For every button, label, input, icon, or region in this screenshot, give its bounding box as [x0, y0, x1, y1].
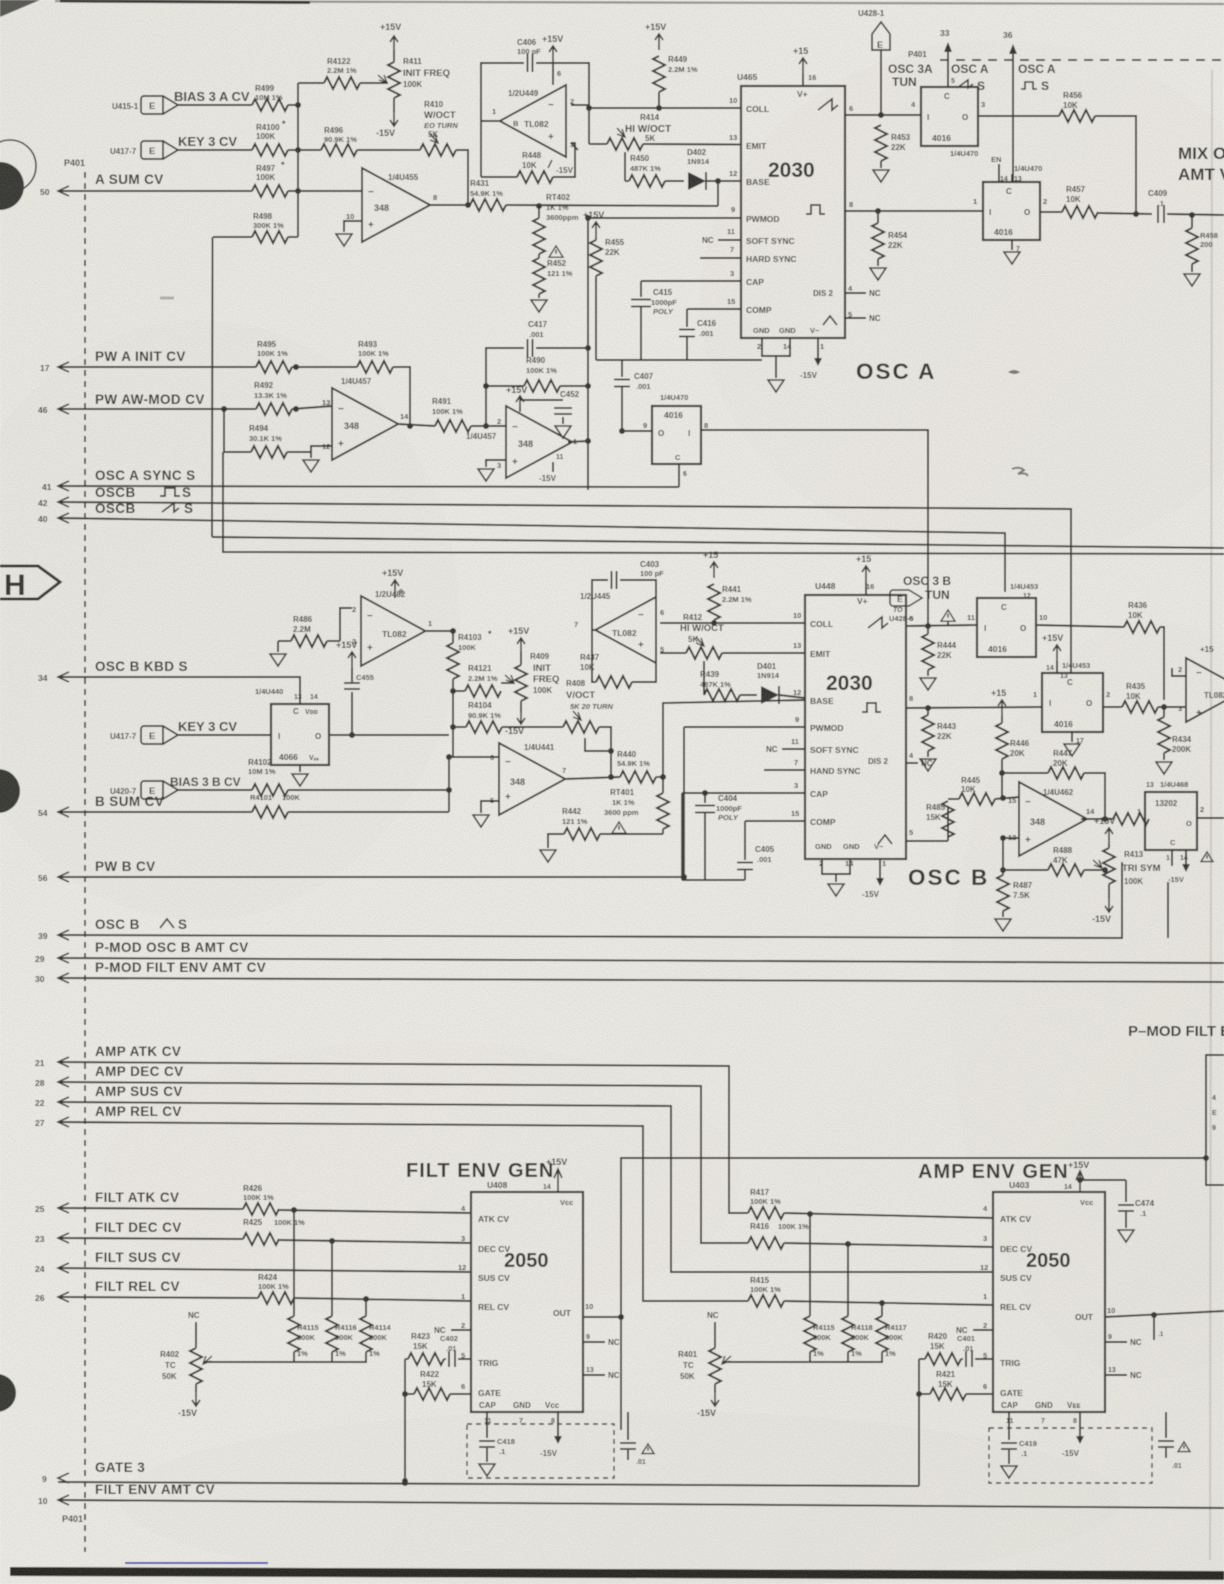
smudge mark c [160, 297, 174, 300]
pin 29 arrow [35, 953, 69, 964]
resistor R491 [432, 397, 471, 432]
pot R410 W/OCT [420, 100, 458, 156]
analog switch U440 4066 [255, 687, 329, 765]
resistor R452 [533, 254, 573, 294]
net AMP SUS CV [95, 1084, 183, 1099]
wire OSCB saw-S bus [58, 518, 1005, 592]
wire r4103 down [452, 679, 454, 757]
net PW A INIT CV [95, 349, 186, 364]
U462 output [1081, 816, 1113, 822]
U441 -input wire [449, 756, 499, 758]
U448 pin EMIT [793, 641, 831, 659]
net BIAS 3 A CV [174, 89, 250, 104]
power -15V r402 [178, 1390, 200, 1418]
net label MIX OSC AMT [1178, 144, 1224, 184]
C403 feedback frame [592, 580, 656, 630]
pot R413 TRI SYM [1093, 844, 1161, 898]
U403 OUT pin [1075, 1306, 1115, 1322]
U465 pin HARD SYNC [700, 245, 797, 264]
U465 pin CAP [730, 269, 764, 287]
wire r431 to node [506, 203, 718, 209]
op-amp U441 [490, 743, 566, 815]
U465 V+ pin [793, 46, 816, 99]
wire r445 to u462 [995, 795, 1019, 801]
net label AMP ENV GEN [918, 1161, 1069, 1183]
capacitor C415 [631, 281, 677, 360]
ground r454 [870, 259, 886, 280]
wire filt out [583, 1314, 624, 1320]
resistor R486 feedback [291, 608, 352, 647]
pin 56 arrow [38, 872, 69, 883]
wire pulse B out [906, 705, 1042, 711]
IC U465 2030 body [737, 72, 845, 338]
resistor R488 [1003, 846, 1084, 876]
resistor R415 [748, 1276, 784, 1307]
bottom black bar [10, 1567, 1224, 1580]
resistor R458 [1186, 215, 1218, 264]
net B SUM CV [95, 794, 164, 809]
wire filt-dec [58, 1238, 243, 1239]
pin 23 arrow [35, 1233, 69, 1244]
resistor R441 [708, 584, 752, 623]
resistor R435 [1103, 682, 1158, 713]
diode D402 [665, 148, 710, 190]
op-amp U457a [322, 377, 409, 460]
cap bottom bus [596, 359, 762, 361]
wire r495 node [292, 364, 357, 370]
wire filt-atk [58, 1208, 243, 1209]
capacitor C401 [957, 1334, 993, 1367]
wire r4104 to voct [502, 726, 563, 728]
U403 bottom labels [1001, 1401, 1080, 1425]
wire pw-b [58, 727, 687, 880]
pin 22 arrow [35, 1097, 69, 1108]
wire pw-aw [58, 408, 256, 410]
wire gate-3 [58, 1480, 919, 1486]
IC U468 13202 [1137, 780, 1204, 850]
pin 28 arrow [35, 1077, 69, 1088]
wire PWMOD B [684, 726, 805, 728]
resistor R439 [700, 670, 740, 701]
pin 21 arrow [35, 1057, 69, 1068]
U448 gnd pins wires [822, 859, 850, 882]
U448 V+ pin [856, 554, 874, 606]
P401 label bottom [62, 1514, 83, 1524]
wire filt-env-amt [58, 1500, 1224, 1508]
wire r455 stub [595, 278, 597, 360]
ground rt402 chain [531, 294, 547, 312]
net P-MOD FILT ENV AMT CV [95, 960, 266, 975]
scanner corner top-left [0, 0, 40, 17]
IC U408 2050 body [471, 1180, 583, 1412]
U455 +input ground [336, 212, 362, 246]
wire r446 node [999, 759, 1005, 798]
wire filt-rel [58, 1297, 258, 1298]
pin 46 arrow [38, 404, 69, 415]
net A SUM CV [95, 172, 164, 187]
resistor R496 [321, 126, 357, 156]
wire 300k bus amp [722, 1352, 882, 1362]
U453b gnd stub [1064, 732, 1084, 756]
trig gate column filt [402, 1359, 414, 1484]
resistor R499 [252, 84, 288, 111]
U448 DIS2 pin [868, 751, 933, 768]
U403 pin REL [983, 1292, 1031, 1312]
resistor R420 [925, 1332, 961, 1365]
U448 pin HAND SYNC [764, 758, 861, 776]
wire amp-rel [58, 1122, 748, 1301]
r486 ground [270, 641, 291, 666]
U465 pin BASE [729, 169, 770, 187]
U470b gnd stub [1004, 240, 1020, 264]
R414 wiper drop [624, 152, 626, 181]
resistor R4100 [252, 119, 288, 156]
wire b-sum [58, 811, 252, 813]
U403 cap dashed box [989, 1428, 1152, 1483]
wire r412 to emit [722, 652, 805, 654]
r442 ground [540, 834, 564, 862]
U468 out wire [1197, 817, 1224, 819]
resistor R421 [930, 1370, 993, 1400]
capacitor C404 [695, 793, 742, 880]
U462 +input wire [1000, 835, 1019, 873]
P401 dashed line top [908, 50, 1224, 60]
wire a-sum [58, 190, 252, 192]
power +15V r413 [1094, 816, 1115, 844]
wire r417 to chip [784, 1211, 993, 1218]
power -15V r409 [505, 708, 525, 736]
ground r487 [995, 911, 1011, 931]
resistor R443 [922, 708, 957, 751]
op-amp U482 [352, 590, 432, 666]
binder hole 2 [0, 769, 20, 813]
resistor R489 series [1113, 813, 1149, 825]
U470c in wire [619, 428, 652, 434]
U408 NC stubs [583, 1334, 620, 1380]
E flag OSC 3B TUN [889, 574, 951, 623]
U408 2050 label [504, 1250, 549, 1272]
U448 pin CAP [794, 781, 828, 799]
wire CAP B [682, 792, 805, 794]
wire key node [288, 147, 321, 153]
net KEY 3 CV b [178, 719, 237, 734]
U457b output wire [568, 438, 591, 444]
wire r457 to c409 [1098, 211, 1152, 217]
resistor R457 [1040, 185, 1098, 218]
pin 40 arrow [38, 513, 69, 524]
op-amp U445 [574, 592, 664, 663]
op-amp U457b [466, 406, 577, 478]
smudge mark a [1008, 370, 1020, 374]
wire amp-sus [58, 1102, 993, 1272]
U403 pin SUS [980, 1263, 1032, 1283]
U448 pin COLL [793, 611, 833, 629]
resistor R494 [224, 424, 287, 458]
wire r420 c401 [961, 1358, 963, 1360]
ground c418 [479, 1464, 495, 1476]
net PW B CV [95, 859, 156, 874]
p-mod box pins [1212, 1095, 1217, 1132]
diode D401 [740, 662, 780, 704]
U457b power -15V [539, 454, 564, 483]
pin 54 arrow [38, 807, 69, 818]
C417 feedback frame [486, 345, 591, 426]
resistor R4114 filt [360, 1299, 392, 1358]
resistor R4118 amp [842, 1244, 873, 1358]
trig gate column amp [916, 1359, 930, 1486]
frame right vertical [1167, 882, 1169, 938]
pin 27 arrow [35, 1117, 69, 1128]
wire key b [178, 734, 271, 736]
C404 frame [682, 790, 708, 880]
U457b power +15V [506, 385, 527, 412]
U408 pin TRIG [461, 1351, 499, 1368]
U449 ground stub [571, 143, 578, 150]
pin 34 arrow [38, 672, 69, 683]
wire r435 node [1158, 704, 1186, 710]
wire bias b [178, 789, 252, 791]
net BIAS 3 B CV [170, 775, 241, 789]
resistor R492 [254, 381, 292, 415]
scanner edge top [55, 1, 1224, 4]
cap bottom bus b [682, 879, 745, 881]
power -15V r413 [1092, 896, 1113, 924]
U408 bottom labels [479, 1401, 560, 1425]
amp vee [1062, 1412, 1084, 1458]
wire amp-atk [58, 1062, 748, 1213]
label 1/4U470b [1000, 164, 1042, 183]
net label P-MOD FILT ENV [1128, 1023, 1224, 1040]
U482 out wire [426, 628, 456, 634]
net FILT SUS CV [95, 1250, 181, 1265]
binder hole 3 [0, 1374, 16, 1412]
analog switch U453a 4016 [967, 598, 1047, 657]
pin 30 arrow [35, 973, 69, 984]
resistor R444 [922, 626, 957, 670]
capacitor C474 [1080, 1180, 1155, 1242]
wire COMP B [745, 820, 805, 822]
wire PWMOD A [585, 215, 741, 221]
U403 pin2 NC [956, 1321, 993, 1335]
U448 V- wire [862, 859, 884, 899]
label 1/4U453a [1010, 582, 1038, 600]
binder hole 1 [0, 140, 36, 210]
net FILT DEC CV [95, 1220, 182, 1235]
wire r493 to output [393, 367, 410, 426]
ground c419 [1001, 1466, 1017, 1478]
resistor R490 feedback [483, 356, 591, 392]
net AMP REL CV [95, 1104, 182, 1119]
wire r410 drop [456, 150, 468, 206]
smudge mark b [1012, 468, 1028, 476]
pin 26 arrow [35, 1292, 69, 1303]
wire r491 to U457b [471, 423, 506, 429]
wire OSC A SYNC S bus [58, 486, 679, 487]
ground r453 [873, 161, 889, 182]
resistor R445 [948, 776, 995, 805]
wire r492 to opamp [292, 406, 332, 412]
capacitor C418 [479, 1412, 515, 1462]
wire c409 out [1167, 212, 1224, 218]
r412 wiper drop [703, 661, 705, 695]
input flag U420-7 [110, 781, 178, 799]
wire b-sum out [288, 811, 449, 813]
U465 DIS2 pin [813, 284, 881, 298]
resistor R4102 [248, 758, 288, 796]
vertical x224 [221, 406, 227, 452]
resistor R455 [583, 210, 625, 281]
power -15V U449 [548, 160, 574, 175]
U440 bias stub [349, 692, 355, 738]
amp ext cap [1158, 1412, 1190, 1470]
pin 50 arrow [40, 186, 69, 197]
net label OSC B [908, 865, 989, 890]
power -15V at R411 [376, 110, 398, 138]
wire p-mod-osc-b [58, 958, 1224, 963]
resistor R417 [748, 1188, 784, 1219]
U470c out wire [701, 430, 928, 478]
wire to base column [717, 181, 719, 206]
wire OSCB pulse-S bus [58, 502, 1071, 673]
pot R412 HI W/OCT [660, 613, 724, 659]
resistor R487 [997, 870, 1033, 911]
input flag U417-7b [110, 726, 178, 744]
label 1/4U470a [950, 149, 1001, 182]
U453b en label [1042, 633, 1090, 680]
capacitor C403 [612, 560, 665, 589]
resistor R4104 [450, 701, 502, 733]
resistor R497 [252, 160, 288, 197]
warning triangle rt402 [549, 246, 563, 257]
wire r415 to chip [784, 1300, 993, 1306]
resistor R440 [617, 750, 656, 783]
U448 bottom pins [815, 842, 886, 868]
ground r444 [920, 670, 936, 690]
pot R401 TC [678, 1311, 731, 1392]
IC U403 2050 body [993, 1180, 1105, 1412]
vertical tun line [927, 430, 929, 626]
pin 25 arrow [35, 1203, 69, 1214]
shield flag U428-1 [858, 9, 890, 118]
summing column x449 [446, 754, 452, 812]
resistor R431 [470, 179, 506, 211]
amp vcc [1064, 1160, 1089, 1192]
wire CAP A [641, 280, 741, 282]
U465 pin COLL [729, 96, 769, 114]
resistor R456 [978, 91, 1095, 122]
net PW AW-MOD CV [95, 392, 205, 407]
net label OSC A [856, 359, 936, 384]
wire r488 to pot [1084, 867, 1108, 873]
resistor R436 [1036, 601, 1160, 633]
wire d402 to BASE [706, 178, 741, 184]
vertical x588 pwmod [587, 218, 589, 490]
resistor R4115 filt [288, 1210, 319, 1358]
wire r496 to pot [357, 149, 420, 151]
U465 bottom pins [753, 326, 824, 351]
resistor R426 [243, 1184, 279, 1215]
filt vcc [543, 1157, 567, 1192]
wire osc-b-kbd [58, 677, 300, 704]
U457b +input ground [478, 460, 506, 481]
pin 42 arrow [38, 497, 69, 508]
U465 pulse glyph [806, 200, 853, 214]
r408 frame [585, 727, 614, 754]
capacitor C407 [614, 360, 654, 430]
wire r440 to base b [663, 700, 805, 777]
resistor R4115 amp [804, 1214, 835, 1358]
U465 2030 label [768, 159, 815, 182]
wire 300k bus filt [203, 1352, 366, 1362]
U465 V- wire [800, 338, 822, 380]
wire d401 to base [779, 695, 805, 698]
wire filt out down [620, 1317, 622, 1430]
wire pw-a-init [58, 366, 256, 368]
warn osc3b [941, 610, 955, 626]
net AMP ATK CV [95, 1044, 181, 1059]
wire osc-b-tri-s [58, 862, 1122, 938]
U457a +input [287, 446, 332, 452]
resistor R449 [653, 55, 698, 108]
resistor R448 feedback [481, 121, 575, 183]
resistor R493 feedback [357, 340, 393, 373]
U465 pin COMP [727, 297, 772, 315]
wire r416 to chip [784, 1241, 993, 1247]
net FILT REL CV [95, 1279, 180, 1294]
wire a-sum to opamp [288, 188, 362, 194]
pot R409 INIT FREQ b [501, 652, 559, 712]
resistor R446 [991, 688, 1030, 759]
pin 17 arrow [40, 362, 69, 373]
power +15V r409 [508, 626, 529, 654]
input flag U417-7 [110, 141, 178, 159]
warning rt401 [612, 822, 626, 833]
U448 pulse glyph [862, 694, 913, 712]
U448 2030 label [826, 672, 873, 695]
net FILT ATK CV [95, 1190, 179, 1205]
U403 pin GATE [983, 1382, 1023, 1398]
capacitor C419 [1001, 1412, 1037, 1464]
input flag U415-1 [112, 96, 178, 114]
op-amp U455 [362, 168, 430, 242]
capacitor C417 [528, 320, 548, 357]
resistor R498 [213, 212, 298, 243]
resistor R422 [414, 1370, 471, 1400]
H sheet-reference flag [0, 566, 60, 602]
U408 pin2 NC [434, 1321, 471, 1335]
U408 OUT pin [553, 1302, 593, 1318]
pin 41 arrow [42, 481, 69, 492]
U465 tri glyph pin5 [823, 310, 881, 325]
U408 pin REL [461, 1292, 509, 1312]
resistor R485 [926, 801, 954, 841]
wire filt-sus [58, 1268, 471, 1272]
U468 bottom stubs [1166, 850, 1190, 884]
op-amp U463 [1178, 645, 1224, 722]
analog switch U470c 4016 [643, 393, 708, 464]
U465 pin PWMOD [731, 205, 780, 224]
P401 label top [64, 158, 85, 168]
wire bias b out [288, 789, 449, 791]
resistor R4122 [298, 57, 388, 89]
analog switch U470b 4016 [973, 182, 1047, 240]
U403 pin DEC [983, 1234, 1032, 1254]
C406 feedback frame [481, 63, 589, 121]
capacitor C416 [679, 309, 717, 360]
resistor R434 [1158, 707, 1192, 754]
U408 cap dashed box [467, 1424, 614, 1478]
net OSC A pulse S [1018, 62, 1056, 93]
